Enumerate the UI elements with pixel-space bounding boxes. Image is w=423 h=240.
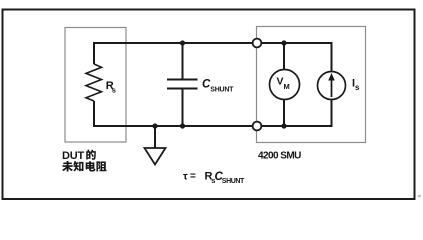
wire ground stub xyxy=(154,126,156,148)
label RS xyxy=(106,80,116,95)
ground xyxy=(145,148,166,165)
wire IS top lead xyxy=(331,42,333,72)
label DUT de unknown resistance (DUT的 / 未知电阻) xyxy=(62,150,107,172)
svg-text:4200 SMU: 4200 SMU xyxy=(258,151,301,162)
svg-text:SHUNT: SHUNT xyxy=(210,87,234,94)
wire bottom rail xyxy=(94,125,332,127)
svg-text:V: V xyxy=(277,76,284,88)
svg-text:τ: τ xyxy=(183,171,188,183)
wire VM bottom lead xyxy=(283,99,285,126)
svg-text:s: s xyxy=(112,86,116,95)
SMU enclosure box xyxy=(257,27,366,143)
svg-text:SHUNT: SHUNT xyxy=(222,178,245,185)
junction: top VM node xyxy=(281,40,286,45)
current source IS xyxy=(318,72,346,100)
terminal node bottom (open circle) xyxy=(253,122,262,131)
wire top rail xyxy=(94,42,332,44)
junction: bottom VM node xyxy=(281,123,286,128)
DUT enclosure box xyxy=(65,28,126,143)
label IS xyxy=(352,78,360,93)
resistor RS xyxy=(86,42,102,127)
svg-text:s: s xyxy=(355,83,360,92)
label CSHUNT xyxy=(202,79,234,94)
capacitor CSHUNT xyxy=(167,43,198,126)
voltmeter VM xyxy=(270,70,300,100)
svg-text:=: = xyxy=(190,171,196,182)
formula tau = RS CSHUNT xyxy=(183,171,245,186)
svg-text:M: M xyxy=(284,82,290,91)
junction: bottom capacitor node xyxy=(180,123,185,128)
terminal node top (open circle) xyxy=(253,39,262,48)
junction: ground node xyxy=(152,123,157,128)
wire VM top lead xyxy=(283,43,285,70)
wire IS bottom lead xyxy=(331,99,333,127)
junction: top capacitor node xyxy=(180,40,185,45)
svg-text:DUT: DUT xyxy=(62,150,84,162)
